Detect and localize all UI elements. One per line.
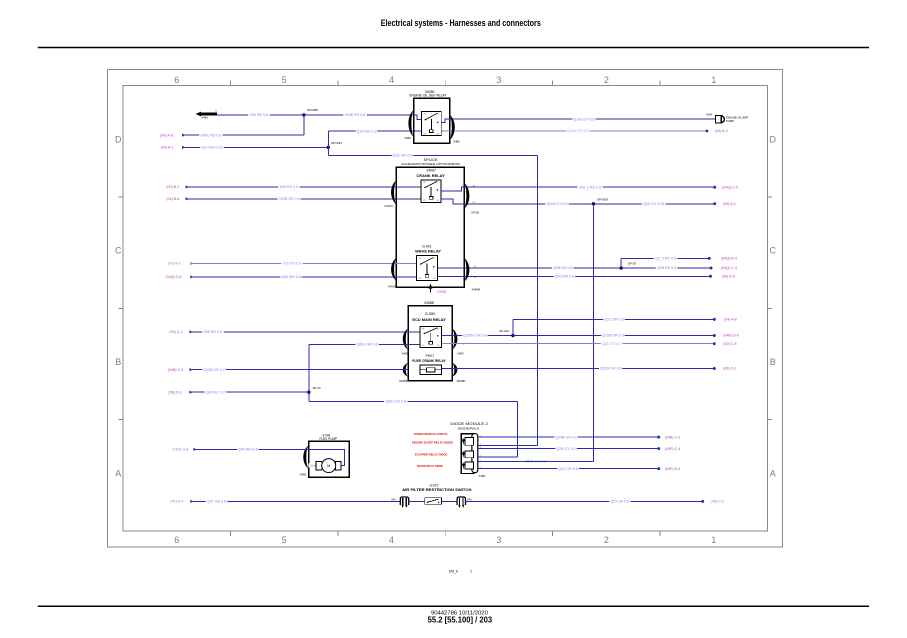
svg-text:(00) A-3: (00) A-3 — [168, 262, 181, 266]
svg-text:X486: X486 — [201, 116, 208, 120]
svg-text:000 RD 0.8: 000 RD 0.8 — [204, 330, 222, 334]
svg-text:6: 6 — [174, 75, 179, 85]
svg-text:2: 2 — [604, 75, 609, 85]
svg-text:(04Q) C-8: (04Q) C-8 — [166, 275, 182, 279]
svg-text:34087: 34087 — [426, 169, 436, 173]
svg-text:B: B — [770, 357, 776, 367]
svg-text:(04Q) B-4: (04Q) B-4 — [721, 257, 737, 261]
svg-text:Q22D OR 0.8: Q22D OR 0.8 — [600, 367, 622, 371]
svg-text:SP-00: SP-00 — [628, 262, 636, 266]
svg-text:K00 RD 0.8: K00 RD 0.8 — [283, 262, 302, 266]
svg-text:X480: X480 — [404, 136, 411, 140]
svg-text:C: C — [770, 246, 777, 256]
svg-text:ECU MAIN RELAY: ECU MAIN RELAY — [412, 318, 446, 322]
svg-text:Q00 GY 0.2: Q00 GY 0.2 — [206, 390, 225, 394]
svg-text:Q00 WH 0.8: Q00 WH 0.8 — [238, 448, 258, 452]
svg-text:(00: (00 — [310, 464, 314, 468]
svg-text:Q1Aa GY 0.8: Q1Aa GY 0.8 — [573, 117, 594, 121]
svg-text:Q07 GE 0.8: Q07 GE 0.8 — [207, 500, 226, 504]
svg-text:Q22B OR 0.8: Q22B OR 0.8 — [602, 334, 624, 338]
svg-text:Q04B GN 0.2: Q04B GN 0.2 — [555, 435, 577, 439]
svg-text:1: 1 — [470, 570, 472, 574]
svg-text:Q1D WH 0.8: Q1D WH 0.8 — [392, 153, 412, 157]
svg-text:G-080: G-080 — [425, 312, 436, 316]
svg-text:Q22B OR 0.2: Q22B OR 0.2 — [203, 368, 225, 372]
svg-text:3: 3 — [496, 535, 501, 545]
svg-text:Q00A GY 0.8: Q00A GY 0.8 — [546, 202, 567, 206]
svg-text:CRANK RELAY DIODE: CRANK RELAY DIODE — [417, 464, 443, 468]
svg-text:AIR FILTER RESTRICTION SWITCH: AIR FILTER RESTRICTION SWITCH — [402, 487, 471, 492]
svg-text:Q1A WH 1.2: Q1A WH 1.2 — [357, 129, 377, 133]
svg-text:(04P) C-4: (04P) C-4 — [665, 447, 681, 451]
svg-text:C: C — [115, 246, 122, 256]
svg-text:B: B — [115, 357, 121, 367]
svg-text:(04) A-8: (04) A-8 — [724, 318, 737, 322]
svg-text:011 WH 0.25: 011 WH 0.25 — [202, 145, 223, 149]
svg-text:ENGINE OIL DEF RELAY: ENGINE OIL DEF RELAY — [409, 93, 447, 97]
svg-text:SPV041: SPV041 — [331, 141, 342, 145]
svg-text:X4R08: X4R08 — [472, 288, 481, 292]
svg-text:(04B) D-0: (04B) D-0 — [723, 334, 739, 338]
svg-text:(04) A-8: (04) A-8 — [160, 133, 173, 137]
svg-text:3: 3 — [496, 75, 501, 85]
svg-text:(7B) D-5: (7B) D-5 — [710, 500, 724, 504]
svg-text:Q22Bv OR 0.8: Q22Bv OR 0.8 — [463, 334, 486, 338]
svg-text:000 RD 2.0: 000 RD 2.0 — [280, 185, 298, 189]
svg-text:D: D — [115, 134, 122, 144]
svg-text:(00) B-1: (00) B-1 — [166, 185, 179, 189]
svg-text:(04B) C-3: (04B) C-3 — [665, 435, 681, 439]
svg-text:X40X: X40X — [457, 352, 464, 356]
svg-text:G008: G008 — [437, 290, 446, 294]
svg-text:(00) D-8: (00) D-8 — [722, 275, 735, 279]
svg-text:M: M — [327, 464, 330, 468]
svg-text:X4V03: X4V03 — [384, 204, 393, 208]
svg-text:G-001: G-001 — [422, 245, 432, 249]
svg-text:PH07: PH07 — [426, 354, 435, 358]
svg-text:(7K2) G-8: (7K2) G-8 — [173, 448, 189, 452]
svg-text:Q00x OR 0.8: Q00x OR 0.8 — [357, 343, 378, 347]
svg-text:1: 1 — [711, 535, 716, 545]
svg-text:Q2B GY 0.2: Q2B GY 0.2 — [556, 447, 575, 451]
svg-text:4: 4 — [389, 75, 394, 85]
svg-text:Q07 GE 0.8: Q07 GE 0.8 — [610, 500, 629, 504]
svg-text:Q2_3 RD 0.8: Q2_3 RD 0.8 — [655, 257, 676, 261]
svg-text:FUSE CRANK RELAY: FUSE CRANK RELAY — [412, 359, 446, 363]
svg-text:ENGINE SLEEP RELAY DIODE: ENGINE SLEEP RELAY DIODE — [412, 441, 453, 445]
svg-text:DIODE MODULE 2: DIODE MODULE 2 — [450, 422, 488, 426]
svg-text:(04B) C-4: (04B) C-4 — [168, 368, 184, 372]
svg-text:(04P) B-3: (04P) B-3 — [665, 467, 680, 471]
svg-text:(00) A-1: (00) A-1 — [161, 146, 174, 150]
svg-text:X408: X408 — [401, 352, 408, 356]
svg-text:SP-222: SP-222 — [499, 329, 509, 333]
svg-text:Q2B RD 0.8: Q2B RD 0.8 — [657, 266, 676, 270]
svg-text:Q22 OR 0.8: Q22 OR 0.8 — [604, 318, 623, 322]
svg-text:X480: X480 — [453, 139, 460, 143]
svg-text:(04) B-8: (04) B-8 — [166, 197, 179, 201]
svg-text:(00) D-1: (00) D-1 — [723, 367, 736, 371]
svg-text:000E RD 0.8: 000E RD 0.8 — [345, 113, 366, 117]
svg-text:X4708: X4708 — [471, 211, 480, 215]
svg-text:55.2 [55.100] / 203: 55.2 [55.100] / 203 — [428, 616, 493, 625]
svg-text:bhf_b: bhf_b — [449, 570, 458, 574]
svg-text:(00) C-1: (00) C-1 — [169, 330, 182, 334]
svg-text:000 RD 0.8: 000 RD 0.8 — [250, 113, 268, 117]
svg-text:ACCESSORY/POWER OPTIONS/ROW: ACCESSORY/POWER OPTIONS/ROW — [401, 162, 460, 166]
svg-text:X404: X404 — [706, 113, 713, 117]
svg-text:SP08D: SP08D — [399, 379, 408, 383]
svg-text:D: D — [770, 134, 777, 144]
svg-text:SPV085: SPV085 — [307, 108, 318, 112]
svg-text:(00) C-8: (00) C-8 — [723, 342, 736, 346]
svg-text:A: A — [770, 468, 776, 478]
svg-text:Q2C GY 0.2: Q2C GY 0.2 — [602, 342, 622, 346]
svg-text:(04Q) C-0: (04Q) C-0 — [722, 185, 738, 189]
svg-text:Q00 GY 0.25: Q00 GY 0.25 — [643, 202, 664, 206]
svg-text:Q00 WH 0.8: Q00 WH 0.8 — [281, 275, 301, 279]
svg-text:DOSER MODULE (2W/7A): DOSER MODULE (2W/7A) — [414, 432, 448, 436]
svg-text:(7B) D-1: (7B) D-1 — [168, 390, 182, 394]
svg-text:Q00 WH 0.8: Q00 WH 0.8 — [555, 274, 575, 278]
svg-text:SPV009: SPV009 — [597, 197, 608, 201]
svg-text:Q22B OR 0.8: Q22B OR 0.8 — [278, 197, 300, 201]
svg-text:(04Q) C-4: (04Q) C-4 — [721, 266, 737, 270]
svg-text:000C RD 0.8: 000C RD 0.8 — [201, 133, 222, 137]
svg-text:Q2C OR 0.8: Q2C OR 0.8 — [558, 467, 578, 471]
svg-text:(7K) D-4: (7K) D-4 — [170, 500, 184, 504]
svg-text:SP-00: SP-00 — [312, 386, 320, 390]
svg-text:DIODE/PACK: DIODE/PACK — [458, 427, 479, 431]
svg-text:CRANK RELAY: CRANK RELAY — [416, 174, 445, 178]
svg-text:6: 6 — [174, 535, 179, 545]
svg-text:Q2A4 GY 0.2: Q2A4 GY 0.2 — [567, 129, 588, 133]
svg-text:1: 1 — [711, 75, 716, 85]
svg-text:FUEL PUMP: FUEL PUMP — [319, 437, 337, 441]
svg-text:3408B: 3408B — [424, 301, 435, 305]
svg-text:(04) A-2: (04) A-2 — [715, 129, 728, 133]
svg-text:2: 2 — [604, 535, 609, 545]
svg-text:5: 5 — [282, 75, 287, 85]
svg-text:(00) A-1: (00) A-1 — [723, 202, 736, 206]
svg-text:ECU/PWR RELAY DIODE: ECU/PWR RELAY DIODE — [415, 453, 448, 457]
svg-text:Electrical systems - Harnesses: Electrical systems - Harnesses and conne… — [381, 18, 541, 28]
svg-text:X480: X480 — [300, 473, 307, 477]
svg-text:X40: X40 — [391, 498, 396, 501]
svg-text:Q00x GY 0.8: Q00x GY 0.8 — [385, 400, 406, 404]
svg-text:5: 5 — [282, 535, 287, 545]
svg-text:4: 4 — [389, 535, 394, 545]
svg-text:Q2B RD 0.8: Q2B RD 0.8 — [553, 266, 572, 270]
svg-text:000_1 RD 2.0: 000_1 RD 2.0 — [579, 185, 601, 189]
svg-text:A: A — [115, 468, 121, 478]
svg-text:PUMP: PUMP — [726, 119, 734, 123]
svg-text:SP08D: SP08D — [457, 379, 466, 383]
svg-text:WAKE RELAY: WAKE RELAY — [415, 249, 441, 253]
svg-text:X4V08: X4V08 — [388, 285, 397, 289]
svg-text:X480: X480 — [479, 474, 486, 478]
